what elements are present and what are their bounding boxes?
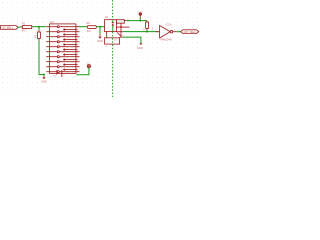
wire <box>122 37 140 43</box>
resistor R1 <box>22 22 33 33</box>
driver IC IC1 <box>46 20 80 77</box>
svg-text:2: 2 <box>173 29 175 31</box>
svg-text:GND: GND <box>41 79 47 83</box>
ground <box>97 34 103 43</box>
wire <box>177 31 181 33</box>
node junction <box>43 74 45 76</box>
net flag IN <box>1 26 19 30</box>
svg-text:IC1: IC1 <box>50 20 55 24</box>
wire <box>80 26 88 28</box>
wire <box>38 27 40 31</box>
svg-text:14: 14 <box>122 34 125 36</box>
wire <box>123 31 158 33</box>
svg-text:K1: K1 <box>105 15 109 19</box>
relay K1 <box>105 15 130 48</box>
wire <box>18 26 22 28</box>
svg-text:1: 1 <box>77 24 79 26</box>
svg-text:GND: GND <box>52 76 57 78</box>
supply P2 <box>137 11 142 18</box>
svg-text:1: 1 <box>122 25 124 27</box>
wire <box>76 68 89 75</box>
node junction <box>38 26 40 28</box>
ground <box>41 75 47 84</box>
node junction <box>139 20 141 22</box>
node junction <box>146 31 148 33</box>
wire <box>99 27 101 34</box>
resistor R3 <box>34 30 41 41</box>
node junction <box>99 26 101 28</box>
inverter gate IC2A <box>156 23 177 42</box>
svg-text:4K7: 4K7 <box>22 29 27 33</box>
svg-text:R2: R2 <box>143 27 145 30</box>
svg-text:4K7: 4K7 <box>87 29 92 33</box>
svg-text:GND: GND <box>114 40 119 42</box>
svg-text:GND: GND <box>137 46 143 50</box>
svg-text:IN_REL1: IN_REL1 <box>3 26 14 30</box>
svg-text:11: 11 <box>63 75 66 77</box>
svg-text:74HC04N: 74HC04N <box>160 38 172 42</box>
supply P1 <box>87 63 91 68</box>
svg-text:IC2A: IC2A <box>166 23 172 27</box>
grid dots <box>2 2 198 93</box>
resistor R2 <box>143 21 154 32</box>
wire <box>39 41 44 75</box>
svg-text:R4: R4 <box>87 21 91 25</box>
ground <box>137 43 143 50</box>
net dashed line <box>112 0 114 97</box>
svg-text:GND: GND <box>97 39 103 43</box>
svg-text:OUT_REL1: OUT_REL1 <box>183 30 196 34</box>
resistor R4 <box>87 21 97 33</box>
wire <box>139 18 141 21</box>
svg-text:R1: R1 <box>22 22 26 26</box>
svg-text:4K7: 4K7 <box>36 30 38 34</box>
net flag OUT <box>181 30 199 34</box>
wire <box>126 20 147 22</box>
wire <box>33 26 47 28</box>
wire <box>96 26 104 28</box>
